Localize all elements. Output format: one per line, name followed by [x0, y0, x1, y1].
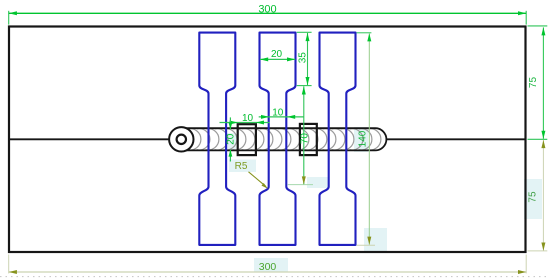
- svg-text:20: 20: [271, 49, 283, 60]
- highlight box 70 bottom: [307, 177, 329, 188]
- stud head outer circle: [169, 127, 193, 151]
- dimension 35 tab height: [297, 32, 312, 85]
- dimension 20 tab width: [260, 49, 295, 61]
- specimen 2: [260, 33, 296, 245]
- highlight box bottom 300: [254, 258, 288, 272]
- highlight box 20 slot text: [225, 133, 236, 151]
- dimension 300 bottom: [9, 255, 527, 275]
- svg-text:140: 140: [358, 130, 369, 147]
- centerline left segment: [9, 138, 169, 140]
- nugget rectangle 1: [238, 124, 256, 155]
- highlight box R5: [229, 160, 256, 173]
- svg-text:70: 70: [300, 133, 311, 145]
- plate outline: [9, 27, 526, 253]
- dimension 10 nugget width: [220, 113, 270, 125]
- highlight box 140 bottom: [364, 228, 387, 251]
- svg-text:10: 10: [272, 107, 284, 118]
- svg-text:R5: R5: [235, 161, 248, 172]
- svg-text:300: 300: [258, 3, 276, 15]
- faint dashed line bottom: [0, 276, 550, 278]
- svg-text:20: 20: [226, 133, 237, 145]
- dimension 300 top: [9, 3, 527, 24]
- dimension 75 lower right: [527, 140, 547, 251]
- dimension 10 gauge width: [259, 107, 304, 119]
- specimen 1: [199, 33, 235, 245]
- nugget rectangle 2: [300, 124, 317, 155]
- centerline right segment: [386, 138, 525, 140]
- dimension 75 upper right: [528, 26, 548, 139]
- highlight box 140 text: [354, 127, 368, 152]
- dimension 140 specimen length: [357, 33, 375, 245]
- svg-text:75: 75: [527, 191, 538, 203]
- stud head inner circle: [177, 135, 186, 144]
- thread arcs of stud shank: [188, 129, 381, 150]
- svg-text:300: 300: [259, 261, 277, 273]
- svg-text:10: 10: [242, 113, 254, 124]
- svg-text:35: 35: [298, 52, 309, 64]
- highlight box lower 75: [524, 179, 542, 219]
- leader R5 fillet radius: [235, 161, 268, 189]
- stud shank slot outline: [181, 128, 386, 150]
- dimension 70 gauge length: [288, 86, 313, 184]
- svg-text:75: 75: [528, 77, 539, 89]
- dimension 20 slot height: [226, 117, 237, 161]
- specimen 3: [320, 33, 356, 245]
